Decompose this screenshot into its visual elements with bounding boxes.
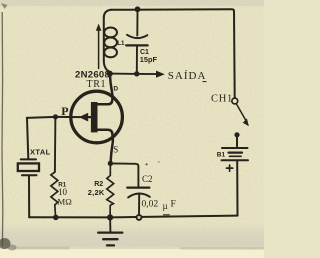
svg-text:TR1: TR1 bbox=[87, 79, 107, 90]
node source junction bbox=[108, 161, 113, 166]
resistor R1 bbox=[51, 117, 58, 217]
inductor L1 bbox=[104, 17, 117, 72]
svg-text:F: F bbox=[171, 200, 176, 210]
wire crystal to bottom rail bbox=[28, 176, 30, 217]
svg-text:0,02: 0,02 bbox=[142, 200, 159, 210]
svg-text:B1: B1 bbox=[217, 151, 226, 158]
node R1 bottom junction bbox=[53, 215, 59, 221]
resistor R2 bbox=[107, 163, 114, 217]
svg-text:L1: L1 bbox=[117, 40, 125, 47]
crystal XTAL bbox=[18, 159, 39, 175]
battery B1 bbox=[222, 132, 249, 215]
capacitor C2 bbox=[110, 163, 149, 217]
capacitor C1 bbox=[126, 10, 147, 74]
svg-text:µ: µ bbox=[163, 201, 168, 211]
node R2 bottom junction bbox=[107, 214, 113, 220]
svg-text:15pF: 15pF bbox=[140, 55, 158, 64]
wire top rail bbox=[104, 10, 111, 18]
svg-text:C2: C2 bbox=[142, 174, 153, 184]
node drain/coil junction bbox=[107, 71, 113, 77]
wire gate to crystal branch bbox=[27, 117, 56, 118]
svg-text:2,2K: 2,2K bbox=[88, 188, 105, 197]
svg-text:S: S bbox=[113, 145, 118, 155]
svg-text:P: P bbox=[61, 104, 68, 118]
svg-text:D: D bbox=[113, 86, 118, 93]
svg-text:CH1: CH1 bbox=[211, 94, 233, 105]
svg-text:MΩ: MΩ bbox=[57, 197, 72, 207]
tuning arrow of L1 bbox=[96, 24, 102, 69]
node C2 bottom junction bbox=[137, 215, 142, 220]
svg-text:SAÍDA: SAÍDA bbox=[168, 70, 207, 82]
node gate junction P bbox=[53, 114, 58, 119]
node C1 bottom junction bbox=[134, 71, 139, 76]
wire SAIDA output bbox=[110, 73, 157, 76]
transistor TR1 2N2608 bbox=[56, 75, 123, 164]
switch CH1 bbox=[232, 98, 249, 126]
wire bottom rail bbox=[29, 216, 237, 218]
svg-text:R2: R2 bbox=[94, 181, 103, 188]
node C1 top junction bbox=[135, 6, 141, 12]
svg-text:XTAL: XTAL bbox=[30, 148, 51, 157]
ground bbox=[98, 217, 122, 245]
